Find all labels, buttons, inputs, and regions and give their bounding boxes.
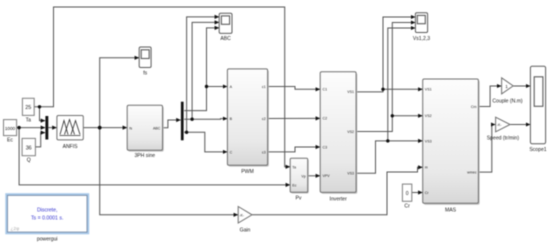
- svg-text:powergui: powergui: [37, 237, 58, 243]
- svg-text:C1: C1: [323, 88, 328, 92]
- svg-text:VS2: VS2: [425, 114, 432, 118]
- svg-text:-K-: -K-: [239, 213, 245, 217]
- svg-text:Q: Q: [27, 158, 31, 164]
- svg-text:¿2φ: ¿2φ: [11, 226, 20, 232]
- svg-text:Ta: Ta: [26, 118, 32, 124]
- svg-text:ABC: ABC: [153, 126, 161, 130]
- svg-text:VS2: VS2: [347, 130, 354, 134]
- svg-text:Speed (tr/min): Speed (tr/min): [487, 136, 520, 142]
- svg-text:C: C: [230, 150, 233, 154]
- svg-text:36: 36: [26, 145, 32, 151]
- svg-text:1000: 1000: [5, 126, 16, 131]
- svg-text:Scope1: Scope1: [529, 147, 546, 153]
- svg-text:Inverter: Inverter: [330, 196, 348, 202]
- svg-text:-K-: -K-: [497, 123, 503, 127]
- svg-text:VS3: VS3: [347, 172, 354, 176]
- svg-text:Ec: Ec: [292, 184, 296, 188]
- svg-text:3PH sine: 3PH sine: [134, 153, 155, 159]
- svg-text:Vp: Vp: [301, 174, 305, 178]
- svg-text:PWM: PWM: [241, 169, 253, 175]
- svg-text:VS3: VS3: [425, 139, 432, 143]
- svg-text:Pv: Pv: [296, 196, 302, 202]
- svg-text:C2: C2: [323, 117, 328, 121]
- svg-text:Couple (N.m): Couple (N.m): [492, 98, 523, 104]
- svg-text:Ec: Ec: [7, 138, 13, 144]
- svg-text:m: m: [425, 166, 428, 170]
- svg-text:C3: C3: [323, 145, 328, 149]
- svg-text:fs: fs: [143, 71, 147, 77]
- svg-text:fs: fs: [129, 126, 132, 130]
- svg-text:c1: c1: [262, 85, 266, 89]
- svg-text:c3: c3: [262, 150, 266, 154]
- svg-text:Ts = 0.0001 s.: Ts = 0.0001 s.: [31, 216, 63, 222]
- svg-text:0: 0: [406, 191, 409, 197]
- svg-text:Cr: Cr: [404, 204, 410, 210]
- svg-text:Ta: Ta: [292, 166, 296, 170]
- svg-text:Discrete,: Discrete,: [37, 208, 57, 214]
- svg-text:Gain: Gain: [240, 228, 251, 234]
- svg-text:Cm: Cm: [471, 105, 477, 109]
- svg-text:ABC: ABC: [220, 36, 231, 42]
- svg-text:VS1: VS1: [425, 88, 432, 92]
- svg-text:c2: c2: [262, 117, 266, 121]
- svg-text:ANFIS: ANFIS: [63, 144, 79, 150]
- svg-text:Vs1,2,3: Vs1,2,3: [413, 36, 430, 42]
- svg-text:wmec: wmec: [467, 171, 477, 175]
- svg-text:VS1: VS1: [347, 90, 354, 94]
- svg-text:MAS: MAS: [445, 208, 457, 214]
- svg-text:1: 1: [505, 84, 508, 89]
- svg-text:25: 25: [25, 105, 31, 111]
- svg-text:VPV: VPV: [323, 174, 331, 178]
